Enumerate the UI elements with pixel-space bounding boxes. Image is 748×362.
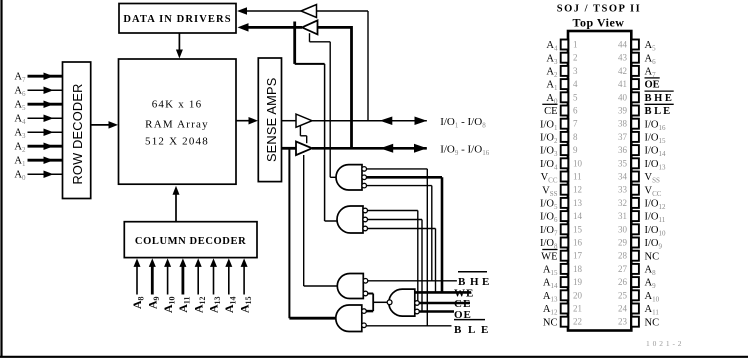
svg-text:34: 34 <box>618 172 628 182</box>
wire A9 into column decoder <box>151 266 154 295</box>
svg-text:37: 37 <box>618 132 628 142</box>
pin 44 (A5) right <box>631 40 639 50</box>
svg-text:1: 1 <box>573 40 578 50</box>
svg-text:L: L <box>468 324 475 336</box>
node A15 input label <box>237 297 253 314</box>
wire jog y42 <box>310 41 331 43</box>
wire A2 into row decoder <box>28 145 63 148</box>
wire data-in drivers to RAM array <box>178 33 180 54</box>
wire riser x324 to gate2 output <box>324 64 326 221</box>
svg-text:7: 7 <box>573 119 578 129</box>
svg-text:1 0 2 1 - 2: 1 0 2 1 - 2 <box>646 339 682 348</box>
svg-text:23: 23 <box>618 317 628 327</box>
wire riser x330 to gate1 output <box>329 42 331 178</box>
wire U4 bottom tap <box>309 33 311 42</box>
svg-text:9: 9 <box>573 145 578 155</box>
svg-text:OE: OE <box>645 80 660 91</box>
wire A10 into column decoder <box>167 266 169 295</box>
pin 35 (I/O13) right <box>631 158 639 168</box>
pin 27 (A8) right <box>631 264 639 274</box>
pin 42 (A7) right <box>631 66 639 76</box>
pin 7 (I/O1) left <box>561 119 569 129</box>
svg-text:25: 25 <box>618 290 628 300</box>
svg-text:3: 3 <box>573 66 578 76</box>
wire gate1 input2 (bold) <box>366 176 442 179</box>
svg-text:19: 19 <box>573 277 583 287</box>
block IC package body <box>568 31 631 331</box>
wire riser x373 (gate5 output to gate3/gate4) <box>372 294 374 312</box>
svg-text:44: 44 <box>618 40 628 50</box>
wire bus riser x435 (to WE) <box>435 229 437 293</box>
svg-text:21: 21 <box>573 304 582 314</box>
pin 17 (WE) left <box>561 251 569 261</box>
svg-text:NC: NC <box>543 317 558 328</box>
wire gate5 output to riser <box>373 301 388 303</box>
pin 34 (VSS) right <box>631 172 639 182</box>
pin 36 (I/O14) right <box>631 145 639 155</box>
pin 30 (I/O10) right <box>631 224 639 234</box>
pin 19 (A14) left <box>561 277 569 287</box>
svg-text:29: 29 <box>618 238 628 248</box>
wire A11 into column decoder <box>181 266 184 295</box>
wire A8 into column decoder <box>136 266 138 295</box>
pin 10 (I/O4) left <box>561 158 569 168</box>
wire gate2 input3 <box>367 228 435 230</box>
wire RAM array to sense amps <box>236 120 254 122</box>
wire BLE line from gate4 <box>366 325 451 327</box>
wire riser x351 to I/O9-16 line (bold) <box>350 26 353 148</box>
wire A13 into column decoder <box>213 266 215 295</box>
svg-text:64K x 16: 64K x 16 <box>152 99 203 111</box>
gate U5 AND (enable for I/O9-16), inputs right <box>336 165 362 190</box>
gate U9 NAND (WE/CE/OE combiner) <box>389 289 415 316</box>
svg-text:B: B <box>458 276 466 288</box>
node A11 input label <box>176 297 192 313</box>
svg-text:18: 18 <box>573 264 583 274</box>
wire A0 into row decoder <box>28 173 63 175</box>
svg-text:512 X 2048: 512 X 2048 <box>145 136 209 148</box>
svg-text:26: 26 <box>618 277 628 287</box>
wire row decoder to RAM array <box>91 124 114 126</box>
wire bus riser x442 (bold, to WE) <box>441 177 444 292</box>
node A9 input label <box>146 297 162 310</box>
wire jog y64 to gate2 riser <box>295 63 325 65</box>
svg-text:RAM Array: RAM Array <box>145 119 209 131</box>
pin 5 (A0) left <box>561 92 569 102</box>
wire gate4 output horizontal (bold) <box>289 317 338 320</box>
svg-text:COLUMN DECODER: COLUMN DECODER <box>135 236 246 247</box>
node BHE label with overline <box>458 271 487 273</box>
pin 3 (A2) left <box>561 66 569 76</box>
wire I/O9-I/O16 line (bold) <box>312 147 427 150</box>
wire A15 into column decoder <box>243 266 245 295</box>
pin 23 (NC) right <box>631 317 639 327</box>
wire riser x368 to I/O1-8 line <box>367 11 369 121</box>
pin 32 (I/O12) right <box>631 198 639 208</box>
svg-text:42: 42 <box>618 66 627 76</box>
node A14 input label <box>222 297 238 314</box>
wire U4 output to data-in drivers (bold) <box>247 26 302 29</box>
svg-text:4: 4 <box>573 79 578 89</box>
svg-text:36: 36 <box>618 145 628 155</box>
pin 6 (CE) left <box>561 106 569 116</box>
wire BHE line from gate3 <box>368 280 457 282</box>
arrowhead I/O1-8 right <box>415 116 428 125</box>
wire gate3 input2 to riser x373 <box>368 293 374 295</box>
pin 41 (OE) right <box>631 79 639 89</box>
gate U7 AND (BHE path) <box>337 274 363 299</box>
wire bus riser x427 <box>426 169 428 326</box>
svg-text:17: 17 <box>573 251 583 261</box>
svg-text:24: 24 <box>618 304 628 314</box>
wire bus riser x422 (to OE) <box>421 220 423 312</box>
svg-text:5: 5 <box>573 92 578 102</box>
wire A4 into row decoder <box>28 117 63 119</box>
pin 1 (A4) left <box>561 40 569 50</box>
svg-text:H: H <box>470 276 479 288</box>
svg-text:CE: CE <box>544 106 557 117</box>
wire bus riser x431 (to BHE) <box>431 186 433 281</box>
pin 2 (A3) left <box>561 53 569 63</box>
wire gate1 output stub <box>330 176 338 178</box>
svg-text:I/O1​ - I/O8​: I/O1​ - I/O8​ <box>440 116 486 130</box>
pin 40 (B H E) right <box>631 92 639 102</box>
wire WE line (bold) <box>415 291 471 294</box>
wire column decoder to RAM array <box>175 191 177 222</box>
pin 13 (I/O5) left <box>561 198 569 208</box>
svg-text:32: 32 <box>618 198 627 208</box>
wire A1 into row decoder <box>28 159 63 162</box>
block DATA IN DRIVERS <box>119 4 236 34</box>
wire CE line (bold) <box>419 302 470 305</box>
svg-text:40: 40 <box>618 92 628 102</box>
wire A14 into column decoder <box>228 266 230 295</box>
wire bus riser x417 (to CE) <box>417 211 419 304</box>
wire U4 input from I/O9-16 line riser (bold) <box>318 26 352 29</box>
wire gate1 input1 <box>366 168 427 170</box>
block SENSE AMPS <box>258 58 281 182</box>
svg-text:38: 38 <box>618 119 628 129</box>
wire I/O1-I/O8 line <box>312 120 427 122</box>
arrowhead I/O9-16 right <box>414 144 427 153</box>
svg-text:15: 15 <box>573 224 583 234</box>
wire OE line (bold) <box>419 310 454 313</box>
wire gate2 output stub <box>325 220 340 222</box>
pin 22 (NC) left <box>561 317 569 327</box>
buffer U3 (to data-in drivers, upper) <box>301 5 317 18</box>
wire left page border <box>0 0 2 358</box>
svg-text:13: 13 <box>573 198 583 208</box>
pin 18 (A15) left <box>561 264 569 274</box>
pin 15 (I/O7) left <box>561 224 569 234</box>
pin 33 (VCC) right <box>631 185 639 195</box>
wire U4 output node down (bold) <box>293 22 296 64</box>
svg-text:22: 22 <box>573 317 582 327</box>
wire A6 into row decoder <box>28 89 63 91</box>
svg-text:31: 31 <box>618 211 627 221</box>
svg-text:20: 20 <box>573 290 583 300</box>
wire gate2 input1 <box>367 210 417 212</box>
pin 14 (I/O6) left <box>561 211 569 221</box>
wire sense amps to U2 (bold) <box>282 147 297 150</box>
svg-text:39: 39 <box>618 106 628 116</box>
svg-text:28: 28 <box>618 251 628 261</box>
svg-text:ROW DECODER: ROW DECODER <box>70 83 85 184</box>
svg-text:10: 10 <box>573 158 583 168</box>
pin 21 (A12) left <box>561 304 569 314</box>
wire A12 into column decoder <box>197 266 199 295</box>
svg-text:33: 33 <box>618 185 628 195</box>
pin 39 (B L E) right <box>631 106 639 116</box>
wire bottom page border <box>0 356 748 358</box>
pin 25 (A10) right <box>631 290 639 300</box>
pin 9 (I/O3) left <box>561 145 569 155</box>
pin 37 (I/O15) right <box>631 132 639 142</box>
wire U3 input from I/O1-8 line riser <box>317 10 369 12</box>
svg-text:B: B <box>454 324 462 336</box>
pin 43 (A6) right <box>631 53 639 63</box>
pin 28 (NC) right <box>631 251 639 261</box>
pin 26 (A9) right <box>631 277 639 287</box>
svg-text:35: 35 <box>618 158 628 168</box>
wire U1 bottom tap to U2 <box>299 126 301 136</box>
block ROW DECODER <box>63 62 91 199</box>
node A12 input label <box>191 297 207 314</box>
block COLUMN DECODER <box>124 222 257 258</box>
pin 16 (I/O8) left <box>561 238 569 248</box>
wire gate2 input2 <box>367 219 422 221</box>
block RAM Array 64K x 16 <box>119 59 237 184</box>
wire gate1 input3 <box>366 185 431 187</box>
svg-text:B H E: B H E <box>645 93 672 104</box>
pin 31 (I/O11) right <box>631 211 639 221</box>
pin 20 (A13) left <box>561 290 569 300</box>
svg-text:SENSE AMPS: SENSE AMPS <box>264 78 279 163</box>
svg-text:11: 11 <box>573 172 582 182</box>
wire gate4 input1 (bold) <box>366 310 373 313</box>
node A13 input label <box>207 297 223 314</box>
svg-text:16: 16 <box>573 238 583 248</box>
svg-text:B L E: B L E <box>645 106 671 117</box>
pin 4 (A1) left <box>561 79 569 89</box>
svg-text:14: 14 <box>573 211 583 221</box>
gate U6 AND (enable for I/O1-8), inputs right <box>337 206 363 233</box>
buffer U4 (to data-in drivers, lower, bold) <box>302 20 318 34</box>
svg-text:8: 8 <box>573 132 578 142</box>
svg-text:6: 6 <box>573 106 578 116</box>
svg-text:12: 12 <box>573 185 582 195</box>
wire U3 output to data-in drivers <box>246 10 301 12</box>
pin 12 (VSS) left <box>561 185 569 195</box>
svg-text:E: E <box>481 324 488 336</box>
wire gate3 output riser x303 <box>303 155 305 286</box>
svg-text:SOJ / TSOP II: SOJ / TSOP II <box>557 4 641 15</box>
svg-text:Top View: Top View <box>573 16 625 30</box>
gate U8 AND (BLE path) <box>336 305 362 332</box>
arrowhead I/O9-16 left <box>380 144 393 153</box>
node A10 input label <box>161 297 177 314</box>
wire gate3 output horizontal <box>304 285 339 287</box>
svg-text:DATA IN DRIVERS: DATA IN DRIVERS <box>123 14 231 25</box>
wire A5 into row decoder <box>28 103 63 106</box>
wire sense amps to U1 <box>282 120 297 122</box>
wire gate4 output riser x289 <box>288 148 290 318</box>
pin 38 (I/O16) right <box>631 119 639 129</box>
svg-text:30: 30 <box>618 224 628 234</box>
pin 29 (I/O9) right <box>631 238 639 248</box>
wire A3 into row decoder <box>28 131 63 133</box>
bubble U9 output <box>387 300 392 305</box>
svg-text:NC: NC <box>645 251 660 262</box>
svg-text:E: E <box>482 276 489 288</box>
svg-text:43: 43 <box>618 53 628 63</box>
svg-text:41: 41 <box>618 79 627 89</box>
pin 8 (I/O2) left <box>561 132 569 142</box>
node A8 input label <box>130 297 146 310</box>
pin 11 (VCC) left <box>561 172 569 182</box>
arrowhead I/O1-8 left <box>380 116 393 125</box>
svg-text:NC: NC <box>645 317 660 328</box>
svg-text:27: 27 <box>618 264 628 274</box>
svg-text:WE: WE <box>541 251 557 262</box>
wire A7 into row decoder <box>28 75 63 78</box>
pin 24 (A11) right <box>631 304 639 314</box>
svg-text:2: 2 <box>573 53 578 63</box>
